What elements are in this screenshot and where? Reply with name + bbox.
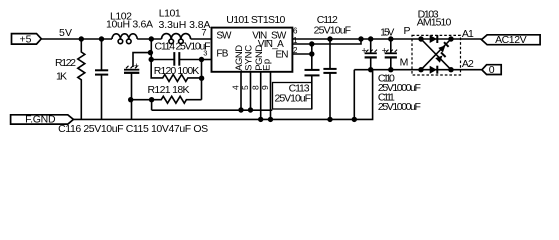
node R122 top	[79, 36, 84, 41]
wire FB rail vertical	[201, 60, 203, 100]
node bridge TR	[448, 36, 453, 41]
svg-text:P: P	[404, 25, 411, 37]
node pin 8	[258, 117, 263, 122]
svg-text:R121 18K: R121 18K	[148, 84, 190, 96]
svg-text:25V1000uF: 25V1000uF	[378, 101, 421, 113]
svg-text:25V10uF: 25V10uF	[314, 25, 352, 37]
svg-text:R120 100K: R120 100K	[154, 65, 200, 77]
svg-text:+: +	[362, 46, 367, 56]
svg-text:M: M	[400, 57, 409, 69]
wire bridge diagonal BL-TR	[421, 39, 451, 70]
wire between L102 and L101	[137, 38, 161, 40]
capacitor C110 electrolytic	[365, 39, 377, 70]
node pin2 bus	[309, 51, 314, 56]
svg-text:0: 0	[489, 64, 495, 76]
wire bridge diagonal TL-BR	[421, 39, 451, 70]
svg-text:8: 8	[250, 85, 260, 90]
node C112 bottom	[327, 117, 332, 122]
terminal AC12V	[482, 35, 541, 45]
inductor L102	[112, 34, 137, 44]
svg-text:15V: 15V	[380, 27, 394, 38]
node C111 top	[388, 36, 393, 41]
capacitor C114	[151, 52, 201, 66]
node R120 right	[199, 76, 204, 81]
svg-text:U101 ST1S10: U101 ST1S10	[226, 14, 285, 26]
node C114 left	[149, 57, 154, 62]
node pin 5	[248, 107, 253, 112]
svg-text:5V: 5V	[59, 27, 72, 39]
capacitor C115	[124, 53, 150, 120]
node pin1 bus	[309, 41, 314, 46]
terminal F.GND	[11, 115, 74, 124]
wire AGND rail	[152, 109, 273, 111]
wire pin 1 VIN_A	[292, 39, 361, 44]
node pin 9	[268, 117, 273, 122]
node M ground	[352, 117, 357, 122]
wire pin 2 EN	[292, 44, 311, 54]
svg-text:+: +	[134, 61, 139, 71]
node R121 left	[149, 97, 154, 102]
svg-text:FB: FB	[216, 48, 228, 59]
node C116 top	[99, 36, 104, 41]
wire pin 9	[270, 72, 272, 120]
wire pin 5	[250, 72, 252, 110]
svg-text:L101: L101	[159, 8, 181, 20]
node bridge TL	[418, 36, 423, 41]
wire ground rail	[73, 70, 372, 120]
wire L101 to pin7 SW	[191, 38, 212, 40]
wire vertical from L102/L101 node down	[150, 39, 152, 60]
svg-text:+: +	[382, 46, 387, 56]
wire M rail down to ground	[353, 70, 355, 120]
node C114 right / FB rail	[199, 57, 204, 62]
wire A2	[451, 69, 482, 71]
wire R121 left down to AGND rail	[151, 100, 153, 111]
node bridge BL	[418, 67, 423, 72]
IC U101 ST1S10	[212, 28, 293, 72]
wire 5V rail from +5 to L102	[41, 38, 112, 40]
wire A1	[451, 38, 482, 40]
wire pin 6 VIN_SW rail to bridge	[292, 38, 421, 40]
terminal 0	[482, 65, 501, 75]
svg-text:AC12V: AC12V	[495, 34, 526, 46]
capacitor C113	[305, 54, 320, 109]
capacitor C111 electrolytic	[385, 39, 397, 70]
wire bridge top edge	[421, 38, 451, 40]
resistor R121	[131, 96, 202, 103]
svg-text:7: 7	[201, 28, 206, 39]
wire bridge bottom edge	[421, 69, 451, 71]
svg-text:+5: +5	[20, 33, 32, 45]
diode D103d lower diagonal	[435, 52, 445, 62]
svg-text:AM1510: AM1510	[417, 17, 452, 29]
label box C113 25V10uF	[273, 83, 312, 110]
node C115 jog to vertical	[148, 50, 153, 55]
capacitor C116	[95, 39, 108, 119]
svg-text:4: 4	[231, 85, 241, 90]
node bridge BR	[448, 67, 453, 72]
svg-text:C114 25V10uF: C114 25V10uF	[155, 40, 211, 52]
resistor R122	[78, 39, 85, 119]
svg-text:F.GND: F.GND	[25, 114, 56, 126]
svg-text:9: 9	[260, 85, 270, 90]
resistor R120	[151, 60, 201, 82]
node L102 L101 junction	[149, 36, 154, 41]
wire M rail	[354, 69, 421, 71]
svg-text:1K: 1K	[56, 71, 67, 83]
svg-text:25V10uF: 25V10uF	[275, 92, 312, 104]
svg-text:A1: A1	[462, 28, 474, 40]
svg-text:Ep: Ep	[262, 59, 273, 71]
inductor L101	[162, 34, 191, 44]
node C110 bottom	[368, 67, 373, 72]
terminal +5	[12, 34, 42, 45]
node pin 4	[238, 107, 243, 112]
diode D103a top	[430, 35, 438, 43]
svg-text:SW: SW	[216, 31, 232, 42]
diode D103c upper diagonal	[438, 42, 448, 52]
wire FB pin3	[202, 59, 212, 61]
svg-text:C116 25V10uF C115 10V47uF OS: C116 25V10uF C115 10V47uF OS	[58, 123, 208, 135]
node C112 top	[327, 36, 332, 41]
svg-text:EN: EN	[276, 49, 289, 60]
capacitor C112	[323, 39, 336, 119]
svg-text:A2: A2	[462, 58, 474, 70]
node C111 bottom	[388, 67, 393, 72]
node C110 top	[368, 36, 373, 41]
svg-text:3: 3	[203, 48, 207, 57]
diode D103b bottom	[430, 66, 438, 74]
svg-text:10uH 3.6A: 10uH 3.6A	[106, 18, 153, 30]
node C115 lead junction	[128, 97, 133, 102]
wire pin 4	[240, 72, 242, 110]
svg-text:6: 6	[293, 26, 298, 35]
node pin1 rail join	[358, 36, 363, 41]
diode bridge D103 dashed box	[412, 35, 461, 75]
wire pin 8	[260, 72, 262, 120]
svg-text:R122: R122	[55, 57, 76, 69]
